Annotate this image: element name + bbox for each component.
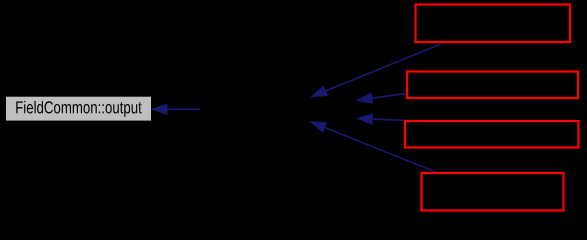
edge D: red node 3 -> middle node [357, 114, 405, 124]
red node 1 (top) [416, 5, 571, 43]
edge A: middle node -> FieldCommon::output [152, 104, 199, 114]
edge E: red node 4 -> middle node [311, 122, 438, 173]
edge B: red node 1 -> middle node [312, 44, 441, 97]
red node 3 [405, 121, 579, 148]
red node 4 (bottom) [422, 173, 564, 211]
edge C: red node 2 -> middle node [357, 93, 407, 103]
red node 2 [407, 72, 578, 99]
node FieldCommon::output (grey filled box) [6, 97, 151, 121]
